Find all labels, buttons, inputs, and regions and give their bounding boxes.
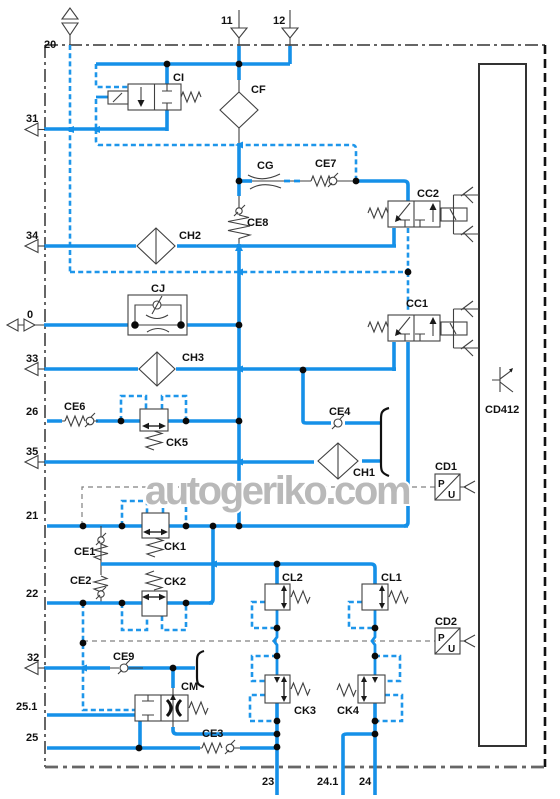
CD412 internal electronic symbol [492,367,513,392]
svg-text:25.1: 25.1 [16,701,37,713]
svg-text:CE4: CE4 [329,406,351,418]
svg-text:11: 11 [221,15,233,27]
valve CC2 solenoid and connector [441,187,479,242]
wire middle supply line to valves CL2 CL1 [101,564,375,584]
throttle valve CM [135,694,208,721]
check valve CK2 [142,571,167,616]
svg-text:0: 0 [27,309,33,321]
valve CC1 body [388,315,440,341]
svg-text:CK5: CK5 [166,437,188,449]
svg-text:CK2: CK2 [164,576,186,588]
pilot line to valve CI top [96,64,128,87]
wire node CG to check valve CE7 run [239,180,356,182]
check valve CE6 [65,413,95,427]
wire CK1 box gap cover [143,521,168,530]
svg-text:P: P [438,633,445,644]
wire valve CI bottom port to port 31 line [165,110,169,131]
svg-text:CE9: CE9 [113,651,134,663]
wire CE3 black links [200,747,240,749]
wire throttle CM entry black [172,688,174,697]
check valve CE1 [94,533,108,560]
svg-text:CC2: CC2 [417,188,439,200]
pilot line from valve CI pilot down to port 31 line [95,99,98,129]
flow merge marks [65,126,243,672]
filter CH2 [137,228,175,264]
pilot line from port 22 node down to throttle CM [83,603,135,710]
wire CE6 black links [62,420,98,422]
svg-text:CD412: CD412 [485,404,519,416]
svg-text:CE1: CE1 [74,546,95,558]
wire main riser center [236,244,239,528]
wire valve CI top port [165,64,169,84]
svg-text:CE7: CE7 [315,158,336,170]
wire port 24.1 column [343,734,375,795]
valve CC1 spring [368,322,388,332]
port 31 symbol [25,123,45,136]
svg-text:21: 21 [26,510,38,522]
svg-text:CK1: CK1 [164,541,186,553]
pilot line to valve CC1 top [407,272,410,310]
wire valve CL2 drop [275,564,279,584]
check valve CE9 [118,660,130,674]
svg-text:P: P [438,479,445,490]
pressure sensor CD1 [435,474,475,501]
wire CK4 to port 24 column [373,703,377,795]
svg-text:33: 33 [26,353,38,365]
port 11 symbol [231,10,247,46]
pilot line from port 20 down and across to valves CC [70,45,408,272]
wire CE7 node to valve CC2 top [356,181,408,202]
junction bracket CE9 [197,651,204,687]
svg-text:20: 20 [44,39,56,51]
port 34 symbol [25,240,45,253]
svg-text:26: 26 [26,406,38,418]
check valve CK5 [140,409,168,450]
enclosure border top [45,44,545,46]
wire top supply header from ports 11 and 12 [96,46,290,80]
svg-text:CE8: CE8 [247,217,268,229]
wire port 34 line through filter CH2 to valve CC2 [44,244,396,248]
pilot line across top to check valve CE7 node [96,129,356,181]
svg-text:CL1: CL1 [381,572,402,584]
wire port 22 line [47,601,213,605]
wire port 25 line through CE3 [47,746,277,750]
valve CI pilot box [108,91,128,104]
wire valve CC1 exhaust drop [392,342,396,371]
wire valve CI pilot stub [96,96,108,99]
wire port 26 line through CE6 and CK5 [47,419,240,423]
port 0 symbol [7,319,44,331]
wire riser port21 to port22 [209,526,213,603]
svg-text:24: 24 [359,776,372,788]
enclosure border bottom [45,766,545,769]
wire CK2 box gap cover [143,598,166,607]
wire port 33 line through filter CH3 to valve CC1 [44,367,396,371]
pilot loops of check valve CK5 [121,396,186,421]
pilot loops of valve CK4 [375,656,402,721]
filter CH1 [318,443,358,479]
valve CI spring [181,92,201,102]
svg-text:25: 25 [26,732,38,744]
port 35 symbol [25,456,45,469]
wire filter CF to node CG [238,80,240,145]
port labels [16,15,372,788]
check valve CK4 [337,675,385,703]
filter CH3 [139,352,175,386]
electrical line to sensor CD2 [83,640,435,642]
wire main riser below CG node [237,143,241,196]
pilot loop of valve CL2 [252,602,277,628]
svg-text:CM: CM [181,681,198,693]
wire branch to check valve CE4 [303,369,380,423]
svg-text:CD1: CD1 [435,461,457,473]
svg-text:U: U [448,490,455,501]
wire port 21 line [47,524,408,528]
wire port 32 line through CE9 [44,666,195,670]
check valve CK1 [142,513,169,557]
wire port 35 line to filter CH1 [44,461,380,462]
valve CC1 solenoid and connector [441,301,479,356]
svg-text:35: 35 [26,446,38,458]
wire valve CC1 outlet long drop to port 21 line [404,342,408,526]
wire check valves CE1 CE2 column [100,526,102,603]
check valve CE4 [332,415,344,429]
enclosure border right [544,45,547,767]
wire valve CL1 to CK4 column [372,610,375,675]
enclosure border left [44,45,46,767]
wire relief CE8 link [238,196,240,246]
watermark autogeriko.com [145,469,410,513]
wire throttle CM top drop [171,668,175,688]
svg-text:CK3: CK3 [294,705,316,717]
check valve CK3 [265,675,310,703]
svg-text:23: 23 [262,776,274,788]
valve CC2 spring [368,208,388,218]
port 12 symbol [282,10,298,46]
wire port 0 line through orifice CJ [44,323,239,327]
ECU box CD412 [479,64,526,746]
svg-text:CD2: CD2 [435,616,457,628]
port 32 symbol [25,662,45,675]
orifice assembly CJ [128,295,187,335]
check valve CE3 [202,740,235,754]
svg-text:22: 22 [26,588,38,600]
valve CC2 body [388,201,440,227]
svg-text:CL2: CL2 [282,572,303,584]
check valve CE2 [94,576,108,599]
pilot loops of valve CK3 [250,656,277,721]
svg-text:CJ: CJ [151,283,165,295]
valve CL2 [265,584,310,610]
electrical line to sensor CD1 [82,487,435,526]
wire CK3 to port 23 column [275,703,279,795]
svg-text:32: 32 [27,652,39,664]
relief valve CE8 [228,205,250,239]
svg-text:12: 12 [273,15,285,27]
check valve CE7 [311,173,338,187]
junction bracket CE4 CH1 [381,408,389,476]
svg-text:CE6: CE6 [64,401,85,413]
svg-text:U: U [448,644,455,655]
wire port 31 line [44,127,167,131]
svg-text:CK4: CK4 [337,705,360,717]
svg-text:CE2: CE2 [70,575,91,587]
svg-text:CF: CF [251,84,266,96]
svg-text:31: 31 [26,113,38,125]
pilot line valve CC2 outlet down [407,228,410,272]
svg-text:autogeriko.com: autogeriko.com [145,469,410,513]
svg-text:CH2: CH2 [179,230,201,242]
pilot loops of check valve CK1 [122,501,186,526]
svg-text:24.1: 24.1 [317,776,338,788]
svg-text:34: 34 [26,230,39,242]
svg-text:CE3: CE3 [202,728,223,740]
valve CL1 [362,584,408,610]
filter CF [220,92,258,128]
wire valve CL2 to CK3 column [274,610,277,675]
orifice CG [248,174,281,189]
svg-text:CC1: CC1 [406,298,428,310]
port 33 symbol [25,363,45,376]
wire valve CC2 exhaust drop [392,228,396,246]
port 20 coupling symbol [62,8,78,45]
valve CI body [128,84,181,110]
wire CE9 black links [110,667,143,669]
pilot loop of valve CL1 [349,602,375,628]
pressure sensor CD2 [435,628,475,655]
svg-text:CH3: CH3 [182,352,204,364]
wire throttle CM bottom to port 23 [172,721,174,729]
svg-text:CI: CI [173,72,184,84]
svg-text:CG: CG [257,160,274,172]
wire port 25.1 line [47,715,140,748]
pilot loops of check valve CK2 [122,603,186,630]
